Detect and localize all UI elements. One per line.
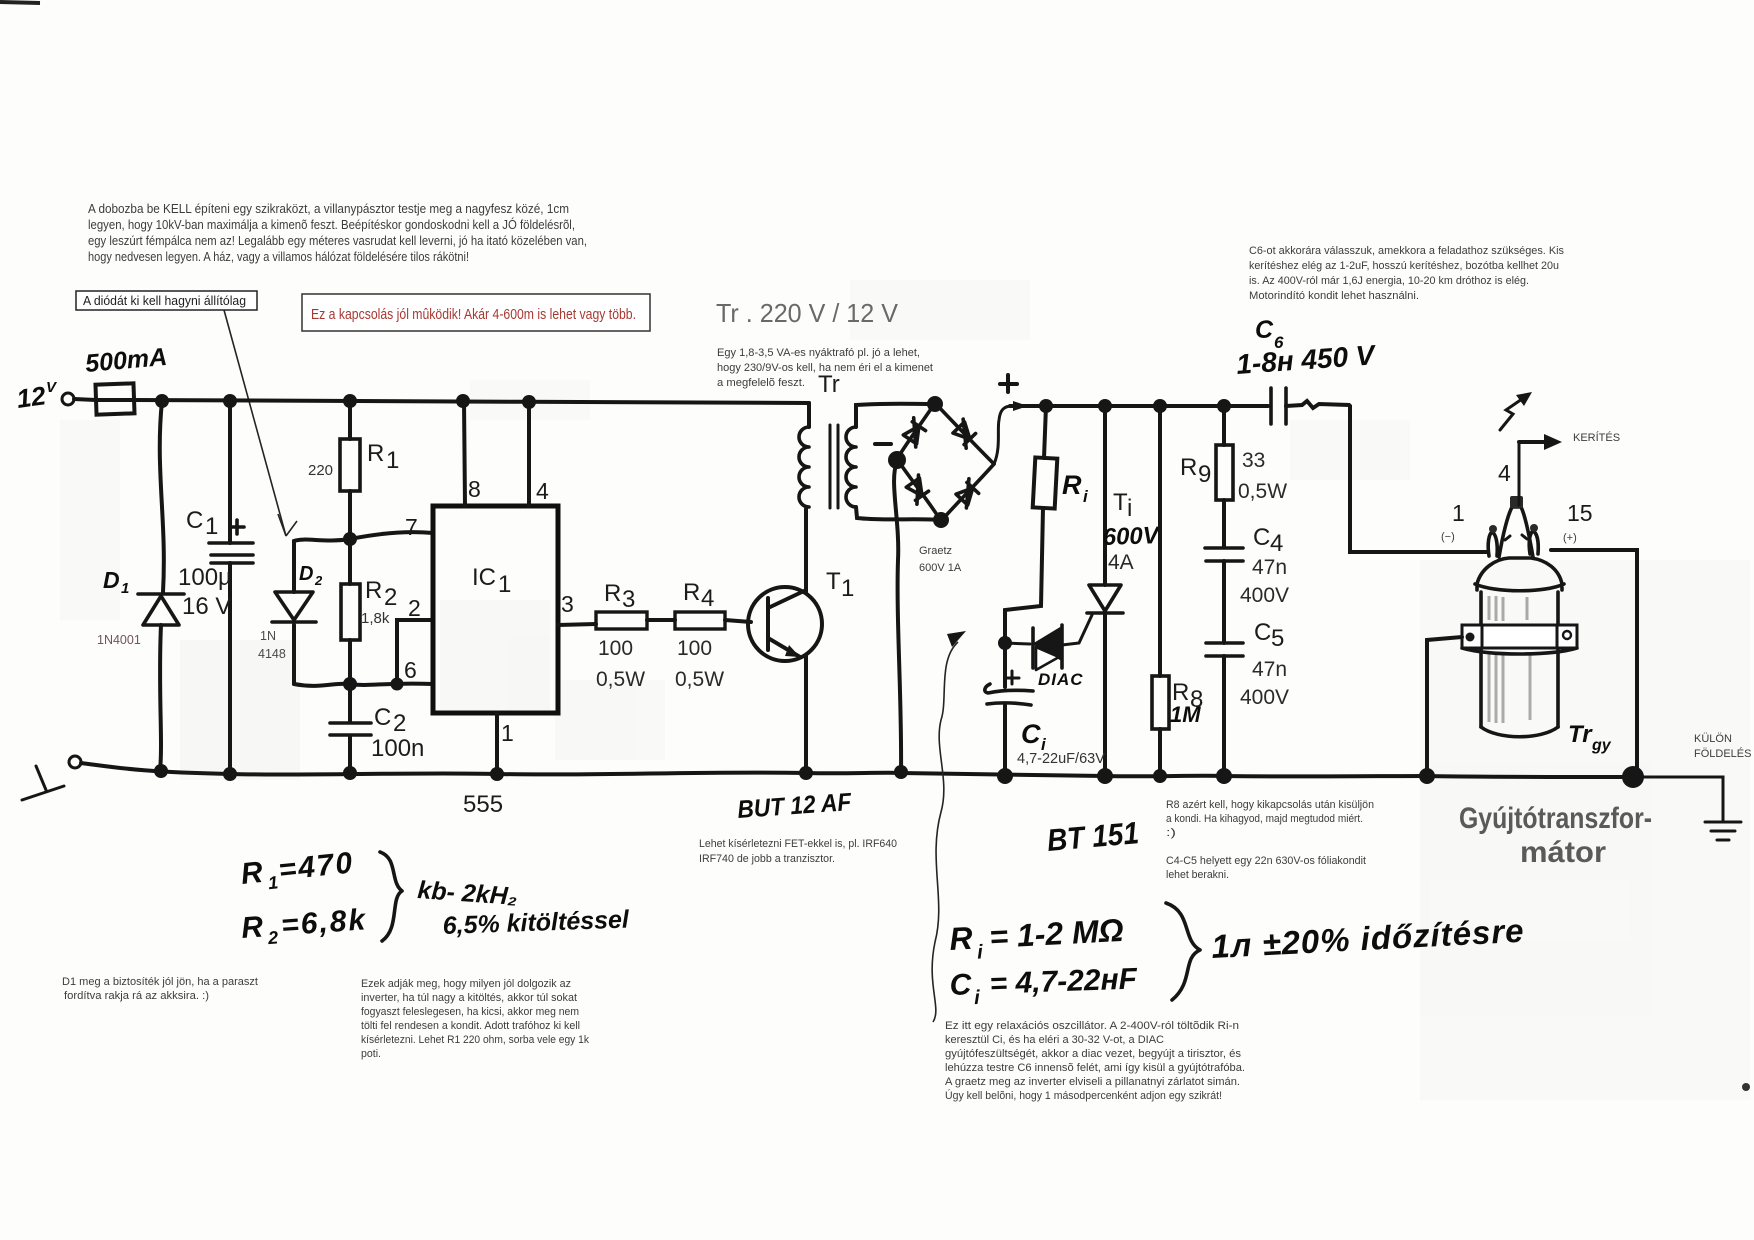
node junction dot pin6/R2/D2 — [343, 677, 357, 691]
svg-text:100: 100 — [598, 637, 633, 660]
svg-text:1: 1 — [205, 513, 218, 540]
svg-text:mátor: mátor — [1520, 836, 1606, 869]
svg-text:R: R — [240, 910, 266, 945]
resistor R8 1M — [1152, 406, 1169, 776]
node junction dot R8 ground — [1153, 769, 1167, 783]
svg-text:47n: 47n — [1252, 658, 1287, 681]
resistor Ri — [1005, 406, 1057, 687]
resistor R9 33 0,5W — [1216, 406, 1233, 546]
wire emitter to ground — [804, 656, 808, 773]
note brace right formulas — [1166, 903, 1200, 1000]
note label C5 values — [1240, 619, 1289, 709]
svg-text:0,5W: 0,5W — [1238, 480, 1287, 503]
capacitor C5 47n 400V — [1206, 643, 1243, 776]
transistor T1 — [748, 587, 822, 661]
node junction dot bridge minus ground — [894, 765, 908, 779]
svg-text:Ez a kapcsolás jól mûködik! Ak: Ez a kapcsolás jól mûködik! Akár 4-600m … — [311, 307, 636, 323]
thyristor Ti BT151 — [1087, 406, 1123, 776]
node junction dot Ti top — [1098, 399, 1112, 413]
svg-text:600V 1A: 600V 1A — [919, 562, 962, 574]
wire R4 to base — [725, 620, 751, 622]
note transformer paragraph — [717, 347, 933, 389]
svg-text:4: 4 — [701, 585, 714, 612]
svg-text:R: R — [948, 920, 973, 957]
wire curvy pointer to oscillator text — [932, 631, 966, 1022]
svg-text:R8 azért kell, hogy kikapcsolá: R8 azért kell, hogy kikapcsolás után kis… — [1166, 799, 1374, 811]
node bridge left dot — [888, 451, 906, 469]
svg-text:5: 5 — [1271, 625, 1284, 652]
node junction dot C2 ground — [343, 766, 357, 780]
svg-text:kerítéshez elég az 1-2uF, hoss: kerítéshez elég az 1-2uF, hosszú kerítés… — [1249, 260, 1559, 272]
svg-text:4: 4 — [1498, 460, 1511, 486]
capacitor C6 — [1271, 388, 1286, 424]
svg-text:= 4,7-22нF: = 4,7-22нF — [989, 962, 1138, 1000]
svg-text:a megfelelõ feszt.: a megfelelõ feszt. — [717, 377, 805, 389]
diode DIAC — [1005, 615, 1092, 670]
svg-text:12: 12 — [15, 380, 48, 414]
svg-text::): :) — [1166, 827, 1176, 839]
wire top rail 12V — [133, 400, 809, 403]
note handwritten R1=470 — [239, 846, 356, 896]
svg-text:fogyaszt feleslegesen, ha kics: fogyaszt feleslegesen, ha kicsi, akkor m… — [361, 1006, 579, 1018]
note handwritten Ri=1-2 MOhm — [948, 912, 1124, 965]
note label Gyujtotranszformator — [1459, 802, 1652, 869]
node junction blob coil ground — [1622, 766, 1644, 788]
svg-text:= 1-2 MΩ: = 1-2 MΩ — [988, 912, 1124, 955]
node junction dot emitter ground — [799, 766, 813, 780]
transformer Tr secondary winding — [846, 427, 856, 507]
wire pointer line from boxed label to D2 — [224, 310, 297, 536]
node junction dot DIAC left — [998, 636, 1012, 650]
svg-text:1,8k: 1,8k — [361, 610, 390, 627]
node junction dot R8 top — [1153, 399, 1167, 413]
svg-text:D: D — [103, 567, 120, 593]
svg-text:inverter, ha túl nagy a kitölt: inverter, ha túl nagy a kitöltés, akkor … — [361, 992, 577, 1004]
wire coil HV terminal up to fence arrow — [1518, 442, 1521, 505]
svg-text:2: 2 — [384, 584, 397, 611]
wire secondary top to bridge — [856, 404, 933, 427]
svg-text:15: 15 — [1567, 500, 1593, 526]
svg-text:legyen, hogy 10kV-ban maximálj: legyen, hogy 10kV-ban maximálja a kimenõ… — [88, 217, 575, 232]
svg-text:Tr . 220 V / 12 V: Tr . 220 V / 12 V — [716, 298, 899, 328]
note fence arrow — [1519, 434, 1562, 450]
svg-text:6: 6 — [404, 657, 417, 683]
note duty-cycle paragraph bottom middle — [361, 978, 589, 1060]
capacitor C4 47n 400V — [1205, 548, 1243, 643]
svg-text:100n: 100n — [371, 735, 424, 762]
svg-text:8: 8 — [468, 476, 481, 502]
ground chassis symbol left — [22, 766, 64, 800]
note value 33 0,5W — [1238, 449, 1287, 503]
svg-text:1M: 1M — [1170, 702, 1201, 727]
fuse F1 500mA — [84, 343, 168, 415]
note top-left warning paragraph — [88, 202, 587, 264]
svg-text:Ezek adják meg, hogy milyen jó: Ezek adják meg, hogy milyen jól dolgozik… — [361, 978, 571, 990]
node junction dot C5 ground — [1216, 768, 1232, 784]
wire pin6 link — [294, 684, 433, 686]
svg-text:2: 2 — [408, 595, 421, 621]
svg-text:C: C — [186, 507, 203, 534]
wire C1 branch vertical — [228, 401, 232, 774]
note label Trgy — [1568, 721, 1612, 754]
node junction dot Ri top — [1039, 399, 1053, 413]
svg-text:fordítva rakja rá az akksira.: fordítva rakja rá az akksira. :) — [64, 990, 209, 1002]
note scan speck bottom right — [1742, 1083, 1750, 1091]
transformer Tr core — [830, 425, 838, 508]
node junction dot clamp ground — [1419, 768, 1435, 784]
svg-text:A diódát ki kell hagyni állító: A diódát ki kell hagyni állítólag — [83, 294, 246, 308]
svg-text:47n: 47n — [1252, 556, 1287, 579]
node bridge bottom dot — [933, 512, 949, 528]
note handwritten R2=6,8k — [240, 903, 368, 950]
svg-text:C: C — [949, 968, 973, 1002]
wire bridge plus to rail — [994, 406, 1012, 464]
svg-text:4,7-22uF/63V: 4,7-22uF/63V — [1017, 751, 1105, 767]
svg-text:33: 33 — [1242, 449, 1265, 472]
svg-text:gy: gy — [1591, 737, 1612, 754]
svg-text:3: 3 — [561, 591, 574, 617]
svg-text:i: i — [1127, 495, 1132, 522]
node 12V input terminal — [15, 379, 74, 414]
svg-text:(−): (−) — [1441, 531, 1455, 543]
note plus sign bridge output — [1000, 375, 1017, 392]
svg-text:keresztül Ci, és ha eléri a 30: keresztül Ci, és ha eléri a 30-32 V-ot, … — [945, 1034, 1164, 1046]
note scan mark top left corner — [0, 2, 40, 3]
svg-text:100µ: 100µ — [178, 564, 232, 591]
svg-text:T: T — [1113, 489, 1128, 516]
note terminal 1 minus — [1441, 500, 1465, 543]
svg-text:1: 1 — [501, 720, 514, 746]
wire bridge minus down to ground — [894, 462, 901, 772]
note relaxation oscillator paragraph — [945, 1020, 1245, 1102]
svg-text:kísérletezni. Lehet R1 220 ohm: kísérletezni. Lehet R1 220 ohm, sorba ve… — [361, 1034, 589, 1046]
svg-text:T: T — [826, 568, 841, 595]
svg-text:4A: 4A — [1108, 551, 1134, 574]
note value 100 0,5W R4 — [675, 637, 724, 691]
svg-text:400V: 400V — [1240, 686, 1289, 709]
note boxed label: A diodat ki kell hagyni allitolag — [76, 291, 257, 310]
svg-text:D: D — [299, 563, 313, 585]
node junction dot Ti ground — [1097, 768, 1113, 784]
note label C4 values — [1240, 524, 1289, 607]
svg-text:D1 meg a biztosíték jól jön, h: D1 meg a biztosíték jól jön, ha a parasz… — [62, 976, 258, 988]
svg-text:KÜLÖN: KÜLÖN — [1694, 733, 1732, 745]
svg-text:2: 2 — [393, 710, 406, 737]
capacitor C2 100n — [330, 684, 371, 773]
svg-text:Úgy kell belõni, hogy 1 másodp: Úgy kell belõni, hogy 1 másodpercenként … — [945, 1089, 1222, 1102]
svg-text:Motorindító kondit lehet haszn: Motorindító kondit lehet használni. — [1249, 290, 1419, 302]
svg-text:IC: IC — [472, 564, 496, 591]
wire pin1 vertical — [495, 713, 499, 774]
diode D1 — [138, 594, 184, 625]
svg-text:600V: 600V — [1102, 522, 1161, 551]
svg-text:C: C — [1253, 524, 1270, 551]
svg-text:lehet berakni.: lehet berakni. — [1166, 869, 1229, 881]
svg-text:KERÍTÉS: KERÍTÉS — [1573, 431, 1620, 444]
resistor R3 100 0,5W — [558, 612, 647, 629]
node junction dot R9 top — [1217, 399, 1231, 413]
svg-text:4148: 4148 — [258, 647, 286, 661]
svg-text:1N4001: 1N4001 — [97, 633, 141, 647]
svg-text:A graetz meg az inverter elvis: A graetz meg az inverter elviseli a pill… — [945, 1076, 1240, 1088]
wire terminal 15 to right down — [1551, 550, 1637, 773]
note handwritten Ci=4,7-22nF — [949, 962, 1138, 1010]
note D1 fuse paragraph bottom left — [62, 976, 258, 1002]
svg-text:Tr: Tr — [1568, 721, 1593, 748]
svg-text:poti.: poti. — [361, 1048, 381, 1060]
diode D2 — [272, 592, 316, 622]
svg-text:1: 1 — [121, 580, 129, 597]
svg-text:1: 1 — [267, 872, 279, 893]
svg-text:is. Az 400V-ról már 1,6J energ: is. Az 400V-ról már 1,6J energia, 10-20 … — [1249, 275, 1529, 287]
svg-text:a kondi. Ha kihagyod, majd meg: a kondi. Ha kihagyod, majd megtudod miér… — [1166, 813, 1363, 825]
ignition coil Trgy — [1462, 496, 1577, 737]
wire D1 branch vertical — [160, 401, 164, 771]
wire collector to primary — [804, 509, 808, 592]
resistor R2 1,8k — [341, 539, 360, 684]
node junction dot C1 top — [223, 394, 237, 408]
wire to earth symbol — [1641, 777, 1723, 820]
svg-text:C6-ot akkorára válasszuk, amek: C6-ot akkorára válasszuk, amekkora a fel… — [1249, 245, 1564, 257]
svg-text:0,5W: 0,5W — [675, 668, 724, 691]
svg-text:(+): (+) — [1563, 532, 1577, 544]
svg-text:C4-C5 helyett egy 22n 630V-os: C4-C5 helyett egy 22n 630V-os fóliakondi… — [1166, 855, 1366, 867]
wire pin8 vertical — [464, 401, 465, 506]
svg-text:1: 1 — [841, 575, 854, 602]
node junction dot pin8 rail — [456, 394, 470, 408]
wire clamp to ground — [1427, 637, 1462, 774]
svg-text:4: 4 — [536, 478, 549, 504]
note value 1N4148 — [258, 629, 286, 661]
note FET experiment paragraph — [699, 838, 897, 865]
node junction dot D1 ground — [154, 764, 168, 778]
wire secondary bottom to bridge — [856, 507, 939, 520]
note lightning arrow — [1500, 392, 1532, 430]
svg-text:4: 4 — [1270, 530, 1283, 557]
wire pin2 link — [397, 620, 433, 684]
svg-text:C: C — [1021, 719, 1041, 749]
svg-text:0,5W: 0,5W — [596, 668, 645, 691]
node junction dot pin2/pin6 — [391, 678, 404, 691]
svg-text:400V: 400V — [1240, 584, 1289, 607]
node junction dot D1 top — [155, 394, 169, 408]
svg-text:Egy 1,8-3,5 VA-es nyáktrafó pl: Egy 1,8-3,5 VA-es nyáktrafó pl. jó a leh… — [717, 347, 920, 359]
svg-text:=6,8k: =6,8k — [280, 903, 368, 942]
note R8 paragraph — [1166, 799, 1374, 881]
svg-text:egy leszúrt fémpálca nem az! L: egy leszúrt fémpálca nem az! Legalább eg… — [88, 234, 587, 248]
note brace left formulas — [380, 852, 402, 941]
node 0V terminal — [69, 756, 81, 768]
note value 100 0,5W R3 — [596, 637, 645, 691]
svg-text:7: 7 — [405, 514, 418, 540]
svg-text:DIAC: DIAC — [1038, 670, 1084, 689]
note C6 paragraph top right — [1249, 245, 1564, 302]
svg-text:1: 1 — [498, 571, 511, 598]
wire C6 to coil — [1286, 401, 1487, 552]
note small arrow on plus rail — [1013, 401, 1028, 411]
note terminal 15 plus — [1563, 500, 1593, 544]
svg-text:R: R — [683, 579, 700, 606]
svg-text:2: 2 — [314, 573, 323, 588]
svg-text:R: R — [604, 580, 621, 607]
wire R3 to R4 — [647, 618, 675, 622]
svg-text:R: R — [1062, 470, 1082, 500]
op-amp IC1 555 timer body — [433, 506, 558, 713]
node junction dot pin7/R1/R2 — [343, 532, 357, 546]
ground earth symbol right — [1705, 822, 1741, 840]
svg-text:R: R — [1180, 454, 1197, 481]
svg-text:3: 3 — [622, 586, 635, 613]
diode bridge Graetz rectifier — [897, 403, 994, 521]
svg-text:16 V: 16 V — [182, 593, 231, 620]
wire bottom rail 0V — [81, 763, 1633, 777]
svg-text:C: C — [374, 704, 391, 731]
svg-text:C: C — [1254, 619, 1271, 646]
svg-text:R: R — [367, 440, 384, 467]
svg-text:Tr: Tr — [818, 371, 840, 398]
svg-text:1N: 1N — [260, 629, 276, 643]
node junction dot pin1 ground — [490, 767, 504, 781]
svg-text:tölti fel rendesen a kondit. A: tölti fel rendesen a kondit. Adott trafó… — [361, 1020, 580, 1032]
svg-text:220: 220 — [308, 462, 333, 479]
capacitor Ci electrolytic — [985, 671, 1033, 776]
wire D2 branch and pin7 link — [294, 532, 433, 684]
svg-text:R: R — [365, 577, 382, 604]
svg-text:Lehet kísérletezni FET-ekkel i: Lehet kísérletezni FET-ekkel is, pl. IRF… — [699, 838, 897, 850]
svg-text:1: 1 — [1452, 500, 1465, 526]
node junction dot C1 ground — [223, 767, 237, 781]
svg-text:lehúzza testre C6 innensõ felé: lehúzza testre C6 innensõ felét, ami így… — [945, 1062, 1245, 1074]
svg-text:C: C — [1255, 316, 1274, 344]
svg-text:Gyújtótranszfor-: Gyújtótranszfor- — [1459, 802, 1652, 835]
transformer Tr primary winding — [799, 403, 809, 507]
svg-text:555: 555 — [463, 791, 503, 818]
wire pin4 vertical — [527, 402, 531, 506]
note minus sign bridge — [875, 442, 891, 446]
svg-text:hogy nedvesen legyen. A ház, v: hogy nedvesen legyen. A ház, vagy a vill… — [88, 250, 469, 264]
svg-text:R: R — [239, 856, 266, 891]
node junction dot R1 top — [343, 394, 357, 408]
note label C6 handwritten — [1255, 316, 1284, 352]
svg-text:FÖLDELÉS: FÖLDELÉS — [1694, 747, 1751, 760]
note red box: Ez a kapcsolas jol mukodik — [302, 294, 650, 331]
svg-text:gyújtófeszültségét, akkor a di: gyújtófeszültségét, akkor a diac vezet, … — [945, 1048, 1242, 1060]
svg-text:IRF740 de jobb a tranzisztor.: IRF740 de jobb a tranzisztor. — [699, 853, 835, 865]
capacitor C1 100u 16V — [209, 520, 253, 563]
wire terminal to fuse — [74, 399, 96, 400]
svg-text:9: 9 — [1198, 461, 1211, 488]
svg-text:Graetz: Graetz — [919, 545, 952, 557]
svg-text:100: 100 — [677, 637, 712, 660]
note KULON FOLDELES label — [1694, 733, 1751, 760]
resistor R4 100 0,5W — [675, 612, 725, 629]
resistor R1 220 — [340, 401, 360, 539]
node bridge top dot — [927, 396, 943, 412]
node junction dot Ci ground — [997, 768, 1013, 784]
svg-text:1: 1 — [386, 447, 399, 474]
wire HV plus rail — [1010, 404, 1268, 408]
svg-text:A dobozba be KELL építeni egy: A dobozba be KELL építeni egy szikraközt… — [88, 202, 569, 216]
svg-text:Ez itt egy relaxációs oszcillá: Ez itt egy relaxációs oszcillátor. A 2-4… — [945, 1020, 1239, 1032]
node junction dot pin4 rail — [522, 395, 536, 409]
note Graetz value label — [919, 545, 962, 574]
svg-text:2: 2 — [266, 928, 278, 949]
